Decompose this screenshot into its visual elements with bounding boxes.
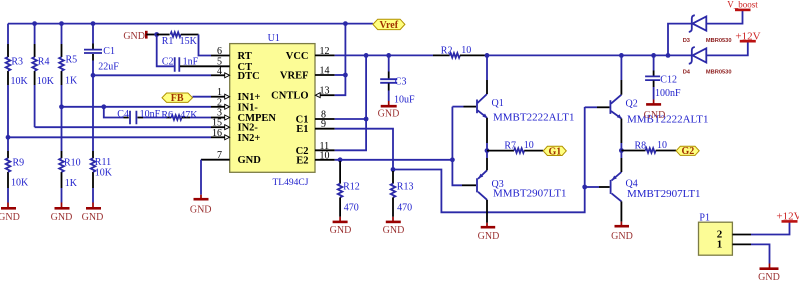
resistor R2 xyxy=(433,53,488,58)
power port +12V bottom xyxy=(776,211,799,223)
U1 pin 1 IN1+ xyxy=(211,87,260,103)
svg-text:MMBT2907LT1: MMBT2907LT1 xyxy=(493,188,567,200)
svg-text:R12: R12 xyxy=(343,182,360,193)
junction R5/R10/pin2 row xyxy=(59,104,64,109)
svg-text:R5: R5 xyxy=(66,55,78,66)
ground under Q4 xyxy=(611,222,633,242)
svg-text:GND: GND xyxy=(0,212,20,223)
wire R6 to pin3 xyxy=(190,117,211,119)
wire base tie to Q1 xyxy=(452,106,463,108)
svg-text:R6: R6 xyxy=(161,110,173,121)
svg-text:E1: E1 xyxy=(296,124,308,135)
junction rail / C12 xyxy=(651,53,656,58)
svg-text:R7: R7 xyxy=(504,141,516,152)
wire Q3 emitter to node xyxy=(486,151,488,158)
wire DTC pin4 row xyxy=(93,74,211,76)
resistor R7 xyxy=(487,148,543,153)
svg-text:R2: R2 xyxy=(441,45,453,56)
net label G1 xyxy=(543,146,566,157)
P1 pin 1 xyxy=(717,239,751,251)
svg-text:RT: RT xyxy=(238,51,252,62)
ground under R9 xyxy=(0,203,20,223)
U1 pin 12 VCC xyxy=(286,46,335,62)
svg-text:CNTLO: CNTLO xyxy=(271,91,308,102)
svg-text:10K: 10K xyxy=(11,178,29,189)
resistor R12 xyxy=(338,161,343,217)
svg-text:10uF: 10uF xyxy=(394,94,415,105)
svg-text:VCC: VCC xyxy=(286,51,309,62)
junction Vref rail / R5 xyxy=(59,21,64,26)
svg-text:R9: R9 xyxy=(13,158,25,169)
ground under R13 xyxy=(383,217,405,236)
svg-text:MBR0530: MBR0530 xyxy=(706,38,732,44)
svg-text:DTC: DTC xyxy=(238,71,260,82)
svg-text:12: 12 xyxy=(320,46,330,57)
svg-text:9: 9 xyxy=(321,119,326,130)
wire D3 branch vertical xyxy=(668,24,691,56)
transistor Q1 xyxy=(464,80,488,143)
wire R1-C2 left vertical xyxy=(157,35,174,67)
svg-text:10K: 10K xyxy=(95,168,113,179)
power port +12V top xyxy=(735,30,760,42)
net label FB xyxy=(162,93,193,104)
svg-text:C4: C4 xyxy=(117,109,129,120)
U1 pin 14 VREF xyxy=(280,66,335,82)
resistor R8 xyxy=(621,148,676,153)
junction R13 top xyxy=(391,167,396,172)
svg-text:R4: R4 xyxy=(38,57,50,68)
svg-text:7: 7 xyxy=(217,150,222,161)
junction pin10 / Q1Q3 bases xyxy=(450,157,455,162)
wire Q4 emitter to node xyxy=(620,151,622,159)
U1 pin 16 IN2+ xyxy=(211,128,260,144)
ground under C3 xyxy=(378,101,400,119)
transistor Q2 xyxy=(597,80,622,143)
svg-text:R3: R3 xyxy=(11,57,23,68)
svg-text:GND: GND xyxy=(123,31,145,42)
U1 pin 4 DTC xyxy=(211,66,260,82)
diode D4 MBR0530 xyxy=(689,47,707,64)
net label G2 xyxy=(676,146,699,157)
svg-text:TL494CJ: TL494CJ xyxy=(273,178,309,188)
junction R1/C2 left node xyxy=(154,32,159,37)
ground under R11 xyxy=(82,203,104,223)
wire base tie to Q4 xyxy=(585,186,599,188)
U1 pin 15 IN2- xyxy=(211,118,258,134)
wire IN2+ pin16 row xyxy=(8,136,211,138)
svg-text:MMBT2222ALT1: MMBT2222ALT1 xyxy=(627,113,709,125)
svg-text:1: 1 xyxy=(717,239,723,251)
wire E2 net pin10 row xyxy=(335,159,453,161)
U1 pin 11 C2 xyxy=(296,141,335,157)
svg-text:D4: D4 xyxy=(683,70,691,76)
svg-text:14: 14 xyxy=(320,66,330,77)
junction Vref rail / R4 xyxy=(32,21,37,26)
svg-text:VREF: VREF xyxy=(280,71,309,82)
wire Vref top rail xyxy=(8,23,373,25)
svg-text:47K: 47K xyxy=(180,110,198,121)
svg-text:GND: GND xyxy=(330,225,352,236)
wire R3 column xyxy=(7,24,9,203)
svg-text:+12V: +12V xyxy=(776,211,799,223)
ground at P1 xyxy=(758,264,780,284)
U1 pin 3 CMPEN xyxy=(211,108,276,124)
junction Vref rail / C1 xyxy=(91,21,96,26)
svg-text:P1: P1 xyxy=(699,212,710,223)
svg-text:22uF: 22uF xyxy=(98,61,119,72)
junction pin2 row / C4 branch xyxy=(101,104,106,109)
wire D3 anode to V_boost xyxy=(706,10,742,24)
svg-text:10: 10 xyxy=(524,140,534,151)
wire Q2 emitter to node xyxy=(620,143,622,151)
wire Q1/Q3 base tie xyxy=(452,107,462,186)
ground at R1 xyxy=(123,31,156,42)
svg-text:MMBT2907LT1: MMBT2907LT1 xyxy=(627,188,701,200)
svg-text:E2: E2 xyxy=(296,155,308,166)
capacitor C2 xyxy=(175,57,180,72)
svg-text:MBR0530: MBR0530 xyxy=(706,70,732,76)
junction R3/R9/pin16 row xyxy=(6,135,11,140)
connector P1 xyxy=(699,222,733,255)
P1 pin 2 xyxy=(717,229,751,241)
wire Q2 collector to rail xyxy=(620,55,622,80)
wire base tie to Q2 xyxy=(585,106,597,108)
junction pin10 / R12 xyxy=(338,157,343,162)
transistor Q3 xyxy=(462,158,487,223)
svg-text:15K: 15K xyxy=(180,36,198,47)
resistor R1 xyxy=(157,32,199,37)
wire FB to pin1 xyxy=(193,96,212,98)
svg-text:G2: G2 xyxy=(682,146,695,157)
junction G2 node xyxy=(619,148,624,153)
wire C2 to pin5 xyxy=(180,65,211,67)
svg-text:R13: R13 xyxy=(397,182,414,193)
wire VREF drop pin14/pin13 xyxy=(335,24,346,96)
junction rail / Q2 collector xyxy=(619,53,624,58)
resistor R9 xyxy=(6,158,11,172)
wire VCC rail from pin12 xyxy=(335,54,433,56)
svg-text:1K: 1K xyxy=(65,178,78,189)
svg-text:470: 470 xyxy=(397,203,412,214)
wire D4 anode row xyxy=(668,54,691,56)
svg-text:GND: GND xyxy=(51,212,73,223)
U1 pin 2 IN1- xyxy=(211,97,258,113)
resistor R4 xyxy=(32,57,37,71)
svg-text:C2: C2 xyxy=(162,56,174,67)
svg-text:+12V: +12V xyxy=(735,30,760,42)
svg-text:GND: GND xyxy=(190,205,212,216)
svg-text:V_boost: V_boost xyxy=(727,0,758,10)
wire C1-C2 outputs vertical to VCC xyxy=(335,55,366,150)
resistor R3 xyxy=(6,57,11,71)
wire R4 column xyxy=(34,24,36,128)
resistor R13 xyxy=(391,171,396,217)
U1 pin 13 CNTLO xyxy=(271,86,335,102)
svg-text:U1: U1 xyxy=(268,33,280,44)
svg-text:R10: R10 xyxy=(64,158,81,169)
wire Q1 emitter to node xyxy=(486,143,488,151)
wire C4 branch drop xyxy=(104,107,124,118)
wire P1 pin1 to ground xyxy=(751,244,770,263)
svg-text:Q2: Q2 xyxy=(626,98,638,109)
svg-text:C12: C12 xyxy=(660,74,677,85)
diode D3 MBR0530 xyxy=(689,15,707,32)
ground at U1 pin 7 xyxy=(190,160,212,216)
U1 pin 9 E1 xyxy=(296,119,334,135)
wire Q1 collector to rail xyxy=(486,55,488,80)
junction C1/R11/pin4 row xyxy=(91,73,96,78)
junction pin14 / vref drop xyxy=(343,73,348,78)
ground under C12 xyxy=(644,100,666,121)
ground under R10 xyxy=(51,203,73,223)
junction rail / D3 branch xyxy=(666,53,671,58)
wire P1 pin2 to +12V xyxy=(751,221,790,234)
wire pin8 to vertical xyxy=(335,118,366,120)
svg-text:GND: GND xyxy=(378,108,400,119)
capacitor C4 xyxy=(124,111,144,124)
U1 pin 6 RT xyxy=(211,46,252,62)
svg-text:R1: R1 xyxy=(162,36,174,47)
ground under Q3 xyxy=(478,223,500,242)
junction G1 node xyxy=(485,148,490,153)
U1 pin 5 CT xyxy=(211,56,252,73)
svg-text:GND: GND xyxy=(758,272,780,282)
svg-text:R8: R8 xyxy=(635,141,647,152)
U1 pin 7 GND xyxy=(201,150,261,166)
net label Vref xyxy=(373,19,405,31)
resistor R11 xyxy=(91,158,96,172)
transistor Q4 xyxy=(599,158,621,222)
capacitor C1 xyxy=(84,50,102,53)
svg-text:D3: D3 xyxy=(683,38,690,44)
capacitor C12 xyxy=(645,55,660,99)
svg-text:10: 10 xyxy=(320,150,330,161)
svg-text:G1: G1 xyxy=(549,146,562,157)
svg-text:GND: GND xyxy=(82,212,104,223)
IC U1 TL494CJ PWM controller xyxy=(230,44,315,173)
wire IN1- pin2 row xyxy=(62,106,212,108)
U1 pin 8 C1 xyxy=(296,110,335,126)
svg-text:13: 13 xyxy=(320,86,330,97)
wire pin14 to drop xyxy=(335,74,346,76)
capacitor C3 xyxy=(380,55,397,101)
junction Vref rail / pin14 drop xyxy=(343,21,348,26)
svg-text:1K: 1K xyxy=(65,76,78,87)
junction VCC rail / C1C2 vertical xyxy=(364,53,369,58)
wire D4 to +12V xyxy=(706,41,748,55)
wire C4 to R6 xyxy=(143,117,166,119)
resistor R10 xyxy=(59,158,64,172)
svg-text:GND: GND xyxy=(644,110,666,121)
svg-text:10: 10 xyxy=(461,45,471,56)
svg-text:C1: C1 xyxy=(103,46,115,57)
svg-text:IN1-: IN1- xyxy=(238,102,259,113)
junction VCC rail / Q1 collector xyxy=(485,53,490,58)
svg-text:IN2+: IN2+ xyxy=(238,133,261,144)
svg-text:GND: GND xyxy=(238,155,262,166)
svg-text:R11: R11 xyxy=(95,157,111,168)
resistor R5 xyxy=(59,57,64,71)
ground under R12 xyxy=(330,217,352,236)
svg-text:FB: FB xyxy=(171,93,184,104)
svg-text:MMBT2222ALT1: MMBT2222ALT1 xyxy=(493,112,575,124)
junction Q4 base xyxy=(582,185,587,190)
svg-text:GND: GND xyxy=(478,231,500,242)
svg-text:C3: C3 xyxy=(395,76,407,87)
svg-text:100nF: 100nF xyxy=(655,88,681,99)
svg-text:16: 16 xyxy=(212,128,222,139)
junction VCC rail / C3 xyxy=(386,53,391,58)
wire R1 to pin6 xyxy=(199,35,212,56)
svg-text:GND: GND xyxy=(383,225,405,236)
svg-text:4: 4 xyxy=(217,66,222,77)
wire C1/R11 column xyxy=(92,24,94,203)
wire E1 net to Q2/Q4 bases xyxy=(393,107,585,212)
junction pin8 / vertical xyxy=(364,117,369,122)
svg-text:10K: 10K xyxy=(37,76,55,87)
svg-text:470: 470 xyxy=(344,203,359,214)
wire IN2- pin15 row xyxy=(35,126,211,128)
svg-text:10: 10 xyxy=(657,140,667,151)
svg-text:Vref: Vref xyxy=(380,20,399,31)
svg-text:10K: 10K xyxy=(11,76,29,87)
wire VCC rail R2 to Q2 xyxy=(488,54,669,56)
U1 pin 10 E2 xyxy=(296,150,334,166)
svg-text:GND: GND xyxy=(611,231,633,242)
svg-text:Q1: Q1 xyxy=(492,98,504,109)
power port V_boost xyxy=(727,0,758,10)
resistor R6 xyxy=(166,115,190,120)
wire R5 column xyxy=(61,24,63,203)
wire E1 net pin9 to R13 xyxy=(335,129,393,170)
